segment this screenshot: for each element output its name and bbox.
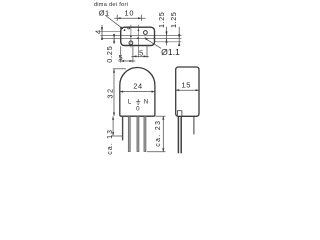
svg-text:0: 0 [136, 106, 140, 113]
hole D4 [130, 36, 132, 38]
svg-text:1.25: 1.25 [169, 12, 178, 28]
svg-text:Ø1.1: Ø1.1 [161, 47, 180, 57]
centerline V1 [130, 25, 132, 48]
pin P3 [144, 116, 146, 151]
svg-text:dima dei fori: dima dei fori [94, 2, 128, 8]
leader Ø1.1 [147, 39, 162, 48]
pin P1 [128, 116, 130, 151]
svg-text:Ø1: Ø1 [99, 9, 110, 18]
extension line y41.4 right [155, 41, 182, 43]
side view body [176, 67, 199, 116]
extension lines 5-5 [120, 46, 122, 62]
svg-text:32: 32 [106, 87, 115, 98]
side short pin [193, 116, 195, 134]
centerline H1 [100, 35, 181, 37]
hole B2 [129, 41, 133, 45]
hole B1 [144, 31, 148, 35]
extension line y30 left [100, 30, 120, 32]
svg-text:4: 4 [93, 30, 102, 34]
centerline V2 [137, 25, 139, 58]
pin P0 short [122, 116, 123, 140]
svg-text:10: 10 [124, 9, 134, 18]
earth symbol [136, 99, 140, 104]
svg-text:0.25: 0.25 [105, 45, 114, 62]
side pin block detail [177, 111, 182, 116]
hole D3 [138, 30, 140, 32]
front view body [120, 68, 155, 117]
svg-text:24: 24 [133, 81, 142, 90]
leader Ø1 [106, 16, 123, 29]
svg-text:L: L [128, 100, 132, 106]
svg-text:15: 15 [181, 81, 191, 90]
svg-text:1.25: 1.25 [157, 12, 166, 28]
hole D2 [128, 27, 130, 29]
extension line y38.2 [103, 38, 182, 40]
svg-text:ca. 23: ca. 23 [155, 120, 162, 147]
svg-text:N: N [144, 100, 148, 106]
hole D5 [137, 37, 139, 39]
hole D1 [124, 29, 126, 31]
pin P2 [137, 116, 139, 151]
template outline [121, 27, 155, 45]
side pins bundle [177, 116, 179, 153]
